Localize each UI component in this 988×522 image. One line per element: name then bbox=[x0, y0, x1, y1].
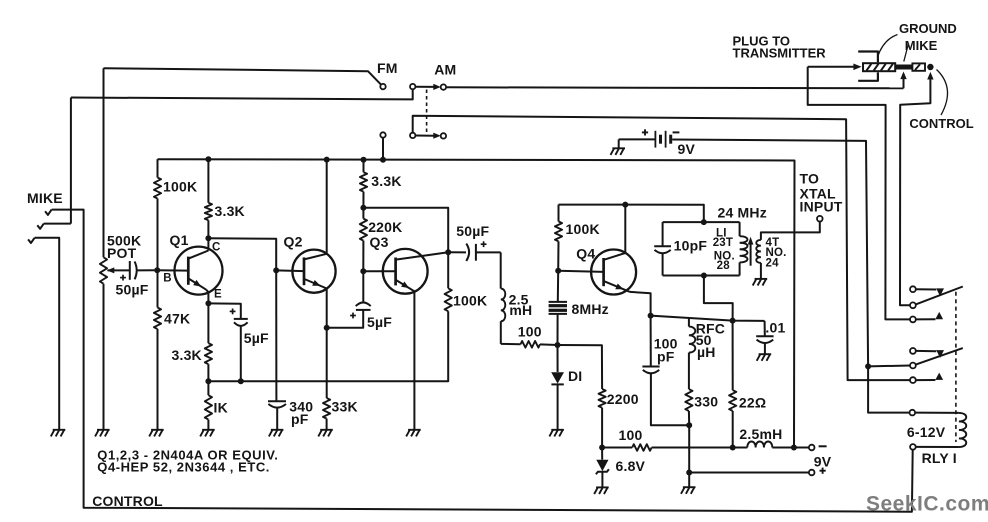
svg-text:5µF: 5µF bbox=[367, 314, 392, 330]
svg-text:6-12V: 6-12V bbox=[907, 424, 946, 440]
svg-text:3.3K: 3.3K bbox=[215, 203, 245, 219]
svg-text:TO: TO bbox=[800, 171, 820, 187]
svg-text:3.3K: 3.3K bbox=[371, 173, 401, 189]
svg-text:33K: 33K bbox=[332, 399, 358, 415]
svg-text:100K: 100K bbox=[566, 221, 600, 237]
svg-text:TRANSMITTER: TRANSMITTER bbox=[733, 46, 827, 61]
svg-text:3.3K: 3.3K bbox=[172, 347, 202, 363]
svg-text:100K: 100K bbox=[163, 179, 197, 195]
svg-text:Q4: Q4 bbox=[576, 246, 595, 262]
svg-text:IK: IK bbox=[214, 399, 228, 415]
svg-text:6.8V: 6.8V bbox=[616, 458, 646, 474]
svg-text:220K: 220K bbox=[368, 219, 402, 235]
svg-text:50µF: 50µF bbox=[456, 223, 489, 239]
svg-text:22Ω: 22Ω bbox=[739, 395, 766, 411]
svg-text:28: 28 bbox=[717, 260, 731, 272]
svg-text:100: 100 bbox=[619, 427, 643, 443]
svg-text:330: 330 bbox=[694, 394, 718, 410]
svg-text:24: 24 bbox=[766, 258, 780, 270]
svg-text:24 MHz: 24 MHz bbox=[718, 205, 767, 221]
svg-text:FM: FM bbox=[377, 60, 398, 76]
svg-text:C: C bbox=[212, 241, 220, 253]
svg-text:CONTROL: CONTROL bbox=[909, 116, 973, 131]
svg-text:pF: pF bbox=[291, 411, 309, 427]
svg-text:100K: 100K bbox=[453, 293, 487, 309]
svg-text:100: 100 bbox=[518, 324, 542, 340]
svg-text:DI: DI bbox=[568, 368, 582, 384]
svg-text:2.5mH: 2.5mH bbox=[739, 426, 782, 442]
svg-text:INPUT: INPUT bbox=[800, 199, 843, 215]
svg-text:mH: mH bbox=[509, 302, 532, 318]
svg-text:MIKE: MIKE bbox=[27, 190, 63, 206]
svg-text:SeekIC.com: SeekIC.com bbox=[866, 493, 988, 516]
svg-text:RLY I: RLY I bbox=[922, 450, 957, 466]
svg-text:AM: AM bbox=[434, 61, 456, 77]
svg-text:.01: .01 bbox=[765, 319, 785, 335]
svg-text:Q2: Q2 bbox=[284, 233, 303, 249]
svg-text:pF: pF bbox=[657, 348, 675, 364]
svg-text:5µF: 5µF bbox=[244, 330, 269, 346]
svg-text:47K: 47K bbox=[164, 311, 190, 327]
svg-text:2200: 2200 bbox=[607, 391, 639, 407]
svg-text:Q3: Q3 bbox=[370, 234, 389, 250]
svg-text:9V: 9V bbox=[814, 454, 832, 470]
svg-text:GROUND: GROUND bbox=[899, 21, 957, 36]
svg-text:MIKE: MIKE bbox=[905, 38, 938, 53]
svg-text:POT: POT bbox=[107, 245, 137, 261]
svg-text:Q1: Q1 bbox=[170, 232, 189, 248]
svg-text:9V: 9V bbox=[678, 141, 696, 157]
svg-text:10pF: 10pF bbox=[674, 238, 708, 254]
svg-text:CONTROL: CONTROL bbox=[92, 493, 163, 509]
svg-text:E: E bbox=[214, 289, 222, 301]
svg-text:50µF: 50µF bbox=[116, 282, 149, 298]
svg-text:B: B bbox=[163, 272, 171, 284]
svg-text:µH: µH bbox=[697, 344, 716, 360]
svg-text:8MHz: 8MHz bbox=[572, 301, 609, 317]
svg-text:Q4-HEP 52, 2N3644 , ETC.: Q4-HEP 52, 2N3644 , ETC. bbox=[97, 460, 270, 475]
svg-text:23T: 23T bbox=[713, 237, 733, 249]
